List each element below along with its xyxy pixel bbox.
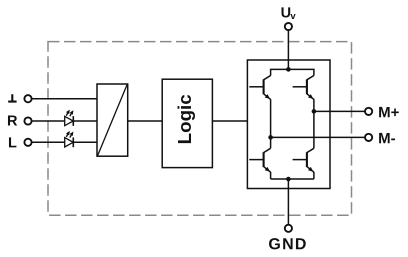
node supply junction bbox=[286, 67, 291, 72]
wire logic to output stage bbox=[212, 120, 247, 122]
dashed module outline bbox=[48, 42, 352, 216]
terminal circle ⊥ bbox=[24, 95, 31, 102]
LED D2 on L line bbox=[65, 138, 74, 147]
transistor Q1 (top left) bbox=[249, 76, 270, 100]
logic block U1 bbox=[162, 79, 212, 167]
transistor Q3 (bottom left) bbox=[249, 148, 270, 172]
terminal label ⊥ (functional earth) bbox=[8, 94, 16, 101]
wire R to LED D1 bbox=[32, 120, 65, 122]
wire LED D1 to isolator bbox=[73, 120, 97, 122]
wire supply rail (top) bbox=[271, 69, 314, 75]
wire isolator to logic bbox=[128, 120, 163, 122]
wire Q4 emitter drop bbox=[313, 172, 315, 179]
wire ground rail (bottom) bbox=[271, 178, 314, 180]
svg-text:GND: GND bbox=[268, 236, 307, 253]
terminal circle M- bbox=[365, 134, 372, 141]
LED D1 on R line bbox=[65, 116, 74, 125]
wire LED D2 to isolator bbox=[73, 141, 97, 143]
wire M- output bbox=[271, 136, 365, 138]
wire ⊥ to isolator bbox=[32, 98, 97, 100]
wire left leg (Q1 emitter to Q3 collector) bbox=[270, 99, 272, 148]
wire Uv feed bbox=[287, 30, 289, 69]
wire Q3 emitter drop bbox=[270, 172, 272, 179]
terminal circle L bbox=[24, 139, 31, 146]
svg-text:L: L bbox=[8, 135, 17, 151]
terminal circle R bbox=[24, 117, 31, 124]
node M- junction bbox=[268, 135, 273, 140]
terminal circle GND bbox=[285, 225, 292, 232]
wire right leg (Q2 emitter to Q4 collector) bbox=[313, 99, 315, 148]
svg-text:v: v bbox=[290, 11, 296, 22]
node M+ junction bbox=[312, 109, 317, 114]
isolator / signal converter block bbox=[97, 84, 128, 156]
output stage (H-bridge) block outline bbox=[247, 60, 330, 189]
terminal circle Uv bbox=[285, 23, 292, 30]
wire GND feed bbox=[287, 179, 289, 225]
svg-text:Logic: Logic bbox=[174, 94, 195, 144]
svg-text:M-: M- bbox=[378, 130, 396, 147]
svg-text:R: R bbox=[7, 114, 18, 130]
node ground junction bbox=[286, 177, 291, 182]
terminal circle M+ bbox=[365, 108, 372, 115]
wire L to LED D2 bbox=[32, 141, 65, 143]
transistor Q4 (bottom right) bbox=[293, 148, 314, 172]
wire M+ output bbox=[314, 110, 365, 112]
svg-text:M+: M+ bbox=[378, 104, 400, 121]
transistor Q2 (top right) bbox=[293, 76, 314, 100]
